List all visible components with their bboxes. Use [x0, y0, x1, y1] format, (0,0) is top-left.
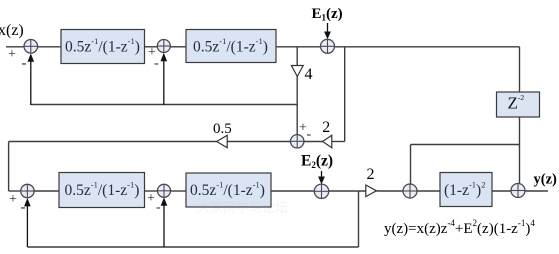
wire A2 to block G2 — [170, 46, 186, 48]
node plus sign A1 left input — [8, 47, 16, 62]
svg-text:x(z): x(z) — [0, 22, 24, 39]
wire riser into A5 with arrowhead — [24, 198, 31, 247]
svg-text:E2(z): E2(z) — [301, 153, 333, 171]
svg-text:(1-z-1)2: (1-z-1)2 — [444, 180, 485, 200]
summing junction A3 — [321, 39, 335, 53]
label 2 gain bottom — [367, 166, 375, 183]
label E1(z) — [312, 6, 343, 23]
wire gain2b to J3 — [376, 190, 403, 192]
wire Z-2 down to final adder — [519, 117, 521, 184]
summing junction A4 — [291, 135, 304, 148]
label y(z) — [534, 172, 558, 188]
gain triangle 2 left-pointing — [323, 135, 332, 147]
node plus sign A6 left input — [147, 191, 155, 206]
node minus sign A5 bottom input — [21, 200, 26, 216]
node plus sign A2 left input — [148, 45, 156, 60]
wire A6 to block G4 — [171, 190, 187, 192]
svg-text:-: - — [154, 56, 159, 71]
wire bottom feedback horizontal — [27, 246, 358, 248]
block G3 0.5z-1/(1-z-1) — [59, 173, 145, 208]
svg-text:+: + — [147, 191, 155, 206]
wire E2 arrow into A7 — [318, 171, 325, 184]
block Z-2 — [497, 92, 540, 117]
wire G5 to A8 — [492, 190, 511, 192]
svg-text:-: - — [21, 200, 26, 216]
wire riser into A2 with arrowhead — [161, 53, 168, 105]
wire bottom feedback node down — [358, 191, 360, 247]
svg-text:-: - — [156, 200, 161, 215]
wire A8 output y(z) — [525, 190, 548, 192]
svg-text:E1(z): E1(z) — [312, 6, 343, 23]
wire E1 arrow into A3 — [324, 23, 331, 39]
summing junction A2 — [157, 40, 170, 53]
node minus sign A4 right input — [307, 127, 312, 142]
label 0.5 — [213, 121, 232, 137]
summing junction A8 final — [511, 184, 525, 198]
wire down to Z-2 block — [519, 47, 521, 92]
wire left edge down — [8, 142, 10, 192]
summing junction A1 — [24, 40, 38, 54]
svg-text:-: - — [307, 127, 312, 142]
wire node after G2 down to gain 4 — [296, 47, 298, 66]
svg-text:+: + — [8, 47, 16, 62]
wire G1 to A2 — [145, 46, 158, 48]
node minus sign A6 bottom input — [156, 200, 161, 215]
gain triangle 0.5 left-pointing — [217, 135, 228, 147]
label 2 gain middle — [322, 119, 330, 136]
wire gain4 down to A4 — [296, 77, 298, 136]
svg-text:0.5: 0.5 — [213, 121, 232, 137]
wire riser into A6 with arrowhead — [161, 197, 168, 247]
node plus sign A4 top input — [299, 121, 307, 136]
wire branch left at y=144.5 — [411, 144, 520, 146]
summing junction A6 — [158, 184, 171, 197]
block G4 0.5z-1/(1-z-1) — [186, 173, 271, 207]
block G2 0.5z-1/(1-z-1) — [186, 30, 276, 63]
summing junction A5 — [21, 184, 34, 197]
svg-text:+: + — [9, 192, 17, 207]
wire J3 to block G5 — [417, 190, 440, 192]
wire A4 left to gain 0.5 — [227, 141, 290, 143]
wire A7 to gain 2b — [329, 190, 366, 192]
node x(z) input label — [0, 22, 24, 39]
node minus sign A2 bottom input — [154, 56, 159, 71]
svg-text:4: 4 — [305, 66, 313, 83]
block G1 0.5z-1/(1-z-1) — [61, 30, 145, 64]
wire input to A1 — [6, 46, 24, 48]
svg-text:-: - — [22, 56, 27, 72]
wire into A5 — [9, 190, 21, 192]
wire A5 to block G3 — [34, 190, 59, 192]
wire from top node down to gain 2 — [332, 47, 345, 142]
svg-text:y(z): y(z) — [534, 172, 558, 188]
node plus sign A5 left input — [9, 192, 17, 207]
wire A1 to block G1 — [38, 46, 61, 48]
label E2(z) — [301, 153, 333, 171]
wire gain2 into A4 — [304, 141, 323, 143]
wire riser into A1 with arrowhead — [28, 53, 35, 105]
node minus sign A1 bottom input — [22, 56, 27, 72]
wire G3 to A6 — [145, 190, 158, 192]
svg-text:y(z)=x(z)z-4+E2(z)(1-z-1)4: y(z)=x(z)z-4+E2(z)(1-z-1)4 — [384, 218, 535, 237]
svg-text:2: 2 — [367, 166, 375, 183]
wire G4 to A7 — [271, 190, 314, 192]
svg-text:大家网学习论坛: 大家网学习论坛 — [197, 200, 288, 215]
gain triangle 4 — [291, 66, 312, 84]
watermark faint — [197, 200, 288, 215]
summing junction A7 — [314, 184, 328, 198]
wire G2 to A3 — [276, 46, 321, 48]
formula y(z)=x(z)z-4+E2(z)(1-z-1)4 — [384, 218, 535, 237]
wire A3 to top-right corner — [335, 46, 520, 48]
gain triangle 2b right-pointing — [366, 185, 377, 197]
wire top feedback horizontal — [31, 104, 297, 106]
wire down into J3 — [410, 145, 412, 185]
block G5 (1-z-1)^2 — [440, 173, 492, 207]
wire gain0.5 to left edge — [9, 141, 217, 143]
summing junction J3 — [403, 184, 417, 198]
svg-text:2: 2 — [322, 119, 330, 136]
